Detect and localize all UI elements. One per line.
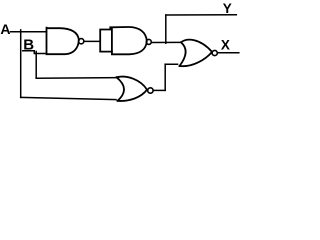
wire G2 output to junction and NOR G3 top input	[152, 41, 182, 43]
wire A drop to NOR G4 bottom input	[21, 97, 116, 99]
nand gate G1 body	[47, 28, 79, 55]
wire NOR G4 output vertical up	[164, 64, 166, 90]
output label Y	[223, 1, 232, 16]
output label X	[221, 37, 230, 52]
nor gate G3 body	[180, 40, 213, 66]
nor gate G4 body	[117, 77, 148, 101]
nor gate G4 output bubble	[148, 88, 153, 93]
wire B drop to NOR G4 top input	[36, 77, 118, 80]
svg-text:X: X	[221, 37, 230, 52]
wire to NOR G3 bottom input	[165, 63, 177, 65]
wire B vertical drop at x=36.2	[35, 52, 37, 79]
nand gate G2 output bubble	[146, 39, 151, 44]
wire B to NAND G1 bottom input (stepped)	[23, 51, 47, 54]
wire G4 output	[153, 89, 165, 91]
wire A vertical drop at x=20.7	[20, 30, 22, 98]
wire G1 output to G2 input	[84, 40, 100, 42]
nand gate G2 body	[112, 27, 147, 54]
input label B	[23, 37, 34, 54]
wire A horizontal to NAND G1 top input	[11, 31, 47, 33]
wire G3 output X	[218, 52, 239, 54]
nand gate G2 input box	[100, 27, 112, 51]
wire Y branch vertical	[165, 15, 167, 43]
svg-text:A: A	[0, 21, 10, 37]
input label A	[0, 21, 10, 37]
wire Y branch horizontal	[166, 14, 237, 16]
nand gate G1 output bubble	[79, 39, 84, 44]
nor gate G3 output bubble	[212, 50, 217, 55]
svg-text:Y: Y	[223, 1, 232, 16]
